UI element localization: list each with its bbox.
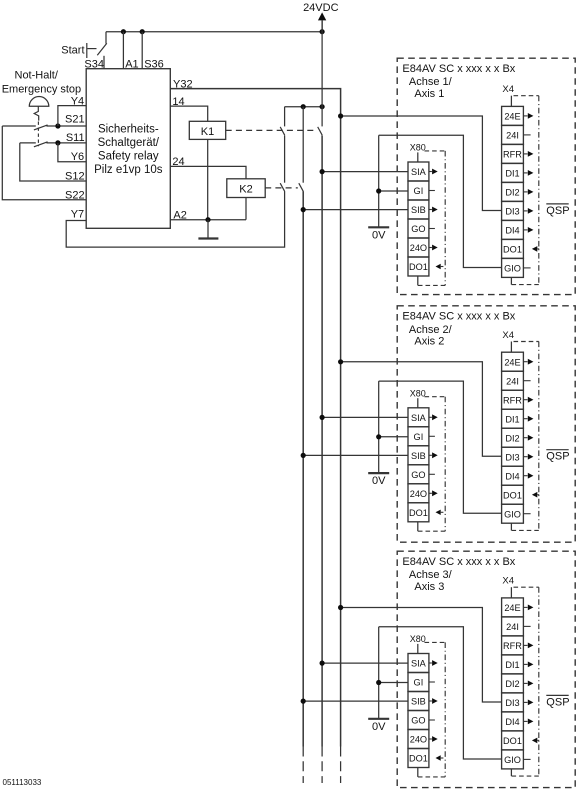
axis2 junction GI / 0V riser — [376, 434, 381, 439]
svg-text:Axis 1: Axis 1 — [414, 88, 444, 100]
axis3 connector X80 stem top — [417, 644, 419, 654]
axis2 X4 pin 24I stub — [523, 380, 530, 382]
axis1 X4 pin RFR arrow — [523, 153, 527, 155]
axis1 wire 0V riser — [378, 135, 380, 227]
junction A2 / K1 — [205, 217, 210, 222]
axis3 X80 pin DO1 cell — [408, 749, 429, 768]
axis2 X4 pin 24E cell — [502, 352, 524, 371]
axis2 X80 pin GO cell — [408, 465, 429, 484]
axis2 wire 0V to GIO — [379, 381, 502, 513]
axis3 connector X4 bracket bottom — [512, 775, 539, 777]
wire K1 to A2 rail — [207, 139, 209, 219]
axis1 connector X80 bracket side — [444, 151, 446, 286]
svg-text:X80: X80 — [410, 389, 426, 399]
axis2 wire SIA feed — [322, 416, 408, 418]
wire start upper terminal — [105, 32, 107, 44]
axis1 X4 pin DI4 cell — [502, 220, 524, 239]
svg-text:DO1: DO1 — [503, 736, 522, 746]
wire SIB rail lower — [302, 191, 304, 746]
wire top rail — [106, 31, 322, 33]
junction top rail / S36 — [140, 29, 145, 34]
axis2 wire Y32 rail to DI3 — [341, 362, 502, 457]
svg-text:Emergency stop: Emergency stop — [2, 84, 81, 96]
svg-text:SIA: SIA — [411, 659, 427, 669]
axis2 X4 pin DI4 cell — [502, 466, 524, 485]
axis3 X80 pin SIB cell — [408, 692, 429, 711]
axis1 X80 pin SIB cell — [408, 200, 429, 219]
axis3 X4 pin DI3 arrow — [523, 701, 527, 703]
axis3 connector X4 bracket side — [538, 587, 540, 776]
svg-text:SIB: SIB — [411, 205, 426, 215]
wire S11 left segment — [20, 142, 36, 144]
axis2 signal QSP overline — [546, 449, 568, 451]
axis3 X80 pin GI stub — [429, 681, 435, 683]
axis1 X4 pin DI1 arrow — [523, 172, 527, 174]
axis3 wire 0V riser — [378, 627, 380, 719]
axis2 connector X80 bracket side — [444, 397, 446, 532]
axis3 wire SIB feed — [303, 700, 408, 702]
wire A1 riser — [122, 32, 124, 69]
axis3 junction Y32 rail branch — [338, 605, 343, 610]
wire 24V feed to top rail — [321, 20, 323, 32]
axis2 wire 0V riser — [378, 381, 380, 473]
axis2 X4 pin DI2 cell — [502, 428, 524, 447]
svg-text:051113033: 051113033 — [3, 778, 42, 787]
svg-text:RFR: RFR — [503, 395, 522, 405]
wire S12 loop — [20, 143, 86, 181]
svg-text:DI1: DI1 — [505, 660, 519, 670]
svg-text:K2: K2 — [239, 184, 252, 196]
wire Y6 — [58, 143, 86, 162]
axis2 connector X80 stem bottom — [417, 522, 419, 531]
axis3 X4 pin DI1 arrow — [523, 663, 527, 665]
svg-text:DI4: DI4 — [505, 471, 519, 481]
axis2 X80 pin GI cell — [408, 427, 429, 446]
wire Y7 feedback loop — [66, 191, 284, 247]
axis1 X80 pin 24O cell — [408, 238, 429, 257]
axis1 X4 pin 24I cell — [502, 125, 524, 144]
svg-text:GI: GI — [414, 678, 424, 688]
wire SIA rail continuation dashed — [321, 747, 323, 784]
svg-text:0V: 0V — [372, 229, 386, 241]
svg-text:GIO: GIO — [504, 755, 521, 765]
axis1 drive enclosure — [397, 58, 575, 294]
K2 actuator dashed link — [265, 187, 298, 189]
axis2 X4 pin DO1 cell — [502, 485, 524, 504]
axis1 X4 pin 24E cell — [502, 106, 524, 125]
axis2 X80 pin SIA arrow — [429, 416, 432, 418]
axis3 X80 pin GO stub — [429, 719, 435, 721]
junction S11 / Y6 — [55, 140, 60, 145]
svg-text:E84AV SC x xxx x x Bx: E84AV SC x xxx x x Bx — [402, 310, 515, 322]
axis3 signal QSP overline — [546, 694, 568, 696]
svg-text:0V: 0V — [372, 475, 386, 487]
svg-text:DI1: DI1 — [505, 414, 519, 424]
axis1 connector X80 stem top — [417, 152, 419, 162]
axis3 X4 pin DI3 cell — [502, 693, 524, 712]
contact K1.2 blade — [280, 127, 285, 135]
axis1 X4 pin DO1 arrow — [532, 246, 537, 252]
axis1 signal QSP overline — [546, 203, 568, 205]
axis1 junction SIA rail branch — [320, 169, 325, 174]
axis2 X4 pin DI3 cell — [502, 447, 524, 466]
axis3 X4 pin DI4 cell — [502, 712, 524, 731]
svg-text:GIO: GIO — [504, 509, 521, 519]
wire S36 riser — [141, 32, 143, 69]
axis2 connector X4 bracket top — [514, 341, 539, 343]
axis1 connector X4 stem bottom — [510, 277, 512, 284]
svg-text:Axis 2: Axis 2 — [414, 336, 444, 348]
svg-text:DI4: DI4 — [505, 226, 519, 236]
axis2 connector X80 bracket top — [425, 396, 446, 398]
wire rail feed stub 24V — [285, 106, 323, 108]
svg-text:DI2: DI2 — [505, 188, 519, 198]
axis2 X80 pin DO1 cell — [408, 503, 429, 522]
axis1 junction GI / 0V riser — [376, 188, 381, 193]
pushbutton S34 actuator bar — [86, 43, 88, 58]
axis2 X4 pin RFR arrow — [523, 399, 527, 401]
axis2 connector X80 bracket bottom — [418, 530, 445, 532]
axis1 X4 pin GIO cell — [502, 258, 524, 277]
svg-text:DI4: DI4 — [505, 717, 519, 727]
svg-text:GI: GI — [414, 432, 424, 442]
wire S34 riser — [103, 56, 105, 69]
svg-text:24O: 24O — [410, 489, 427, 499]
axis3 ground 0V bar — [368, 718, 389, 720]
junction stub / 24V rail — [320, 104, 325, 109]
axis1 connector X4 bracket bottom — [512, 284, 539, 286]
axis2 X4 pin DI1 cell — [502, 409, 524, 428]
svg-text:X4: X4 — [502, 330, 514, 341]
svg-text:DI2: DI2 — [505, 433, 519, 443]
axis3 X4 pin DI1 cell — [502, 655, 524, 674]
svg-text:24O: 24O — [410, 735, 427, 745]
axis2 X80 pin SIB cell — [408, 446, 429, 465]
axis3 X4 pin 24I cell — [502, 617, 524, 636]
svg-text:S21: S21 — [65, 114, 85, 126]
svg-text:Axis 3: Axis 3 — [414, 581, 444, 593]
svg-text:X80: X80 — [410, 143, 426, 153]
axis2 junction SIB rail branch — [301, 453, 306, 458]
axis2 X4 pin DI1 arrow — [523, 418, 527, 420]
axis1 connector X4 bracket top — [514, 95, 539, 97]
svg-text:QSP: QSP — [546, 696, 569, 708]
axis3 X4 pin 24I stub — [523, 625, 530, 627]
wire feedback rail upper — [284, 107, 286, 127]
svg-text:DI2: DI2 — [505, 679, 519, 689]
contact K1.1 blade — [318, 127, 323, 135]
axis2 X4 pin RFR cell — [502, 390, 524, 409]
axis1 connector X80 bracket bottom — [418, 284, 445, 286]
axis2 connector X4 bracket bottom — [512, 529, 539, 531]
axis3 X4 pin GIO stub — [523, 758, 530, 760]
svg-text:Not-Halt/: Not-Halt/ — [15, 70, 59, 82]
axis1 X80 pin 24O arrow — [429, 247, 432, 249]
svg-text:24O: 24O — [410, 243, 427, 253]
axis3 wire 0V to GIO — [379, 627, 502, 759]
axis2 X80 pin SIB arrow — [429, 454, 432, 456]
axis3 junction GI / 0V riser — [376, 680, 381, 685]
svg-text:24I: 24I — [506, 622, 519, 632]
axis2 ground 0V bar — [368, 472, 389, 474]
wire Y32 rail — [170, 89, 340, 747]
wire SIA rail lower — [321, 135, 323, 746]
wire S22 loop — [2, 126, 86, 200]
wire Y4 — [58, 106, 86, 126]
axis1 wire Y32 rail to DI3 — [341, 116, 502, 211]
axis3 X4 pin RFR cell — [502, 636, 524, 655]
svg-text:Achse 2/: Achse 2/ — [409, 324, 453, 336]
axis3 X80 pin SIA arrow — [429, 662, 432, 664]
svg-text:Achse 3/: Achse 3/ — [409, 569, 453, 581]
pushbutton S34 contact blade — [97, 43, 107, 55]
axis3 X80 pin 24O cell — [408, 730, 429, 749]
svg-text:SIB: SIB — [411, 697, 426, 707]
axis1 X4 pin DO1 cell — [502, 239, 524, 258]
axis2 wire GI to 0V — [379, 436, 408, 438]
axis2 drive enclosure — [397, 306, 575, 542]
svg-text:24I: 24I — [506, 131, 519, 141]
axis3 connector X80 bracket top — [425, 641, 446, 643]
axis1 X80 pin SIA cell — [408, 162, 429, 181]
svg-text:DO1: DO1 — [503, 245, 522, 255]
axis3 wire Y32 rail to DI3 — [341, 608, 502, 703]
axis2 X4 pin 24I cell — [502, 371, 524, 390]
axis2 junction Y32 rail branch — [338, 359, 343, 364]
svg-text:GIO: GIO — [504, 264, 521, 274]
junction stub / rail SIB — [301, 104, 306, 109]
axis3 X80 pin GI cell — [408, 673, 429, 692]
pushbutton S34 actuator link — [87, 48, 96, 50]
svg-text:DO1: DO1 — [503, 490, 522, 500]
axis2 connector X4 stem bottom — [510, 523, 512, 530]
axis3 junction SIB rail branch — [301, 699, 306, 704]
svg-text:GI: GI — [414, 186, 424, 196]
e-stop contact S1.2 blade — [34, 142, 48, 147]
axis2 X80 pin 24O cell — [408, 484, 429, 503]
axis2 connector X4 stem top — [510, 342, 512, 353]
svg-text:24I: 24I — [506, 376, 519, 386]
axis1 X4 pin DI3 cell — [502, 201, 524, 220]
axis3 X4 pin GIO cell — [502, 750, 524, 769]
svg-text:DI1: DI1 — [505, 169, 519, 179]
axis2 X4 pin GIO cell — [502, 504, 524, 523]
axis1 connector X80 stem bottom — [417, 276, 419, 285]
axis3 X80 pin GO cell — [408, 711, 429, 730]
axis3 connector X80 stem bottom — [417, 768, 419, 777]
axis1 ground 0V bar — [368, 226, 389, 228]
axis3 X4 pin RFR arrow — [523, 644, 527, 646]
wire Y32 rail continuation dashed — [340, 747, 342, 784]
wire S21 to relay — [46, 125, 86, 127]
svg-text:24E: 24E — [504, 603, 520, 613]
axis2 X80 pin GI stub — [429, 435, 435, 437]
axis3 drive enclosure — [397, 551, 575, 787]
junction S21 / Y4 — [55, 123, 60, 128]
axis1 X4 pin DI3 arrow — [523, 210, 527, 212]
wire SIB rail upper — [302, 107, 304, 183]
axis3 connector X4 bracket top — [514, 586, 539, 588]
contact K2.2 blade — [280, 183, 285, 191]
axis1 X4 pin 24E arrow — [523, 115, 527, 117]
e-stop S1 actuator stem — [34, 106, 39, 120]
wire SIB rail continuation dashed — [302, 747, 304, 784]
axis3 X4 pin DI4 arrow — [523, 720, 527, 722]
axis1 junction SIB rail branch — [301, 207, 306, 212]
axis1 X80 pin GI cell — [408, 181, 429, 200]
relay coil K1 body — [189, 121, 225, 139]
wire pin 14 to K1 — [170, 106, 207, 121]
wire A2 — [170, 219, 246, 221]
e-stop S1 mushroom head — [29, 97, 49, 107]
svg-text:24VDC: 24VDC — [303, 2, 339, 14]
svg-text:DI3: DI3 — [505, 698, 519, 708]
axis3 X4 pin DI2 arrow — [523, 682, 527, 684]
axis3 junction SIA rail branch — [320, 661, 325, 666]
svg-text:Safety relay: Safety relay — [98, 150, 159, 162]
svg-text:DO1: DO1 — [409, 262, 428, 272]
axis2 X4 pin DI2 arrow — [523, 437, 527, 439]
svg-text:E84AV SC x xxx x x Bx: E84AV SC x xxx x x Bx — [402, 556, 515, 568]
svg-text:DI3: DI3 — [505, 207, 519, 217]
axis1 X80 pin GI stub — [429, 190, 435, 192]
axis3 X4 pin 24E cell — [502, 598, 524, 617]
svg-text:GO: GO — [411, 470, 425, 480]
axis3 connector X80 bracket bottom — [418, 776, 445, 778]
axis1 X80 pin SIA arrow — [429, 171, 432, 173]
axis2 wire SIB feed — [303, 454, 408, 456]
svg-text:X80: X80 — [410, 634, 426, 644]
axis2 connector X80 stem top — [417, 398, 419, 408]
axis3 X80 pin 24O arrow — [429, 738, 432, 740]
axis1 junction Y32 rail branch — [338, 113, 343, 118]
axis3 X4 pin 24E arrow — [523, 606, 527, 608]
axis1 wire SIB feed — [303, 209, 408, 211]
axis2 X80 pin GO stub — [429, 473, 435, 475]
svg-text:Achse 1/: Achse 1/ — [409, 76, 453, 88]
axis2 X4 pin DO1 arrow — [532, 492, 537, 498]
axis1 X4 pin DI2 cell — [502, 182, 524, 201]
axis2 X80 pin DO1 arrow — [436, 510, 441, 515]
axis3 X4 pin DO1 cell — [502, 731, 524, 750]
svg-text:Start: Start — [61, 45, 84, 57]
relay coil K2 body — [227, 179, 265, 198]
svg-text:Schaltgerät/: Schaltgerät/ — [98, 137, 160, 149]
e-stop contact S1.1 blade — [34, 125, 48, 130]
svg-text:Pilz e1vp 10s: Pilz e1vp 10s — [94, 164, 163, 176]
axis3 connector X4 stem bottom — [510, 769, 512, 776]
svg-text:24E: 24E — [504, 112, 520, 122]
wire K2 to A2 wire — [245, 198, 247, 220]
svg-text:DO1: DO1 — [409, 754, 428, 764]
axis3 X4 pin DO1 arrow — [532, 738, 537, 744]
axis3 X80 pin DO1 arrow — [436, 755, 441, 760]
axis1 X4 pin DI4 arrow — [523, 229, 527, 231]
wire pin 24 to K2 — [170, 166, 246, 178]
svg-text:SIA: SIA — [411, 413, 427, 423]
safety relay U1 body — [86, 69, 170, 229]
axis1 X80 pin DO1 cell — [408, 257, 429, 276]
axis3 wire GI to 0V — [379, 682, 408, 684]
svg-text:Y7: Y7 — [71, 208, 84, 220]
axis1 X4 pin RFR cell — [502, 144, 524, 163]
axis2 connector X4 bracket side — [538, 342, 540, 531]
svg-text:SIB: SIB — [411, 451, 426, 461]
svg-text:GO: GO — [411, 224, 425, 234]
wire S21 left segment — [2, 125, 36, 127]
svg-text:GO: GO — [411, 716, 425, 726]
axis2 X80 pin SIA cell — [408, 408, 429, 427]
axis3 X4 pin DI2 cell — [502, 674, 524, 693]
svg-text:X4: X4 — [502, 576, 514, 587]
axis1 connector X80 bracket top — [425, 150, 446, 152]
ground at A2 bar — [198, 237, 218, 239]
axis1 wire 0V to GIO — [379, 135, 502, 267]
svg-text:DO1: DO1 — [409, 508, 428, 518]
svg-text:Sicherheits-: Sicherheits- — [98, 124, 159, 136]
svg-text:RFR: RFR — [503, 150, 522, 160]
wire feedback rail middle — [284, 135, 286, 182]
axis3 connector X80 bracket side — [444, 642, 446, 777]
junction top rail / A1 — [121, 29, 126, 34]
axis1 X80 pin GO stub — [429, 228, 435, 230]
axis2 X4 pin DI4 arrow — [523, 475, 527, 477]
wire SIA rail upper — [321, 20, 323, 126]
axis3 X80 pin SIB arrow — [429, 700, 432, 702]
e-stop S1 actuator dashed link — [37, 122, 39, 147]
ground at A2 stem — [207, 220, 209, 239]
axis2 X4 pin 24E arrow — [523, 361, 527, 363]
axis1 connector X4 stem top — [510, 96, 512, 107]
wire S11 to relay — [46, 142, 86, 144]
axis3 connector X4 stem top — [510, 587, 512, 598]
K1 actuator dashed link — [226, 129, 317, 131]
svg-text:QSP: QSP — [546, 451, 569, 463]
svg-text:RFR: RFR — [503, 641, 522, 651]
axis1 wire SIA feed — [322, 171, 408, 173]
supply arrow 24VDC — [318, 12, 326, 20]
svg-text:K1: K1 — [201, 126, 214, 138]
svg-text:E84AV SC x xxx x x Bx: E84AV SC x xxx x x Bx — [402, 63, 515, 75]
axis1 X4 pin DI2 arrow — [523, 191, 527, 193]
axis1 connector X4 bracket side — [538, 96, 540, 285]
axis3 wire SIA feed — [322, 662, 408, 664]
contact K2.1 blade — [299, 183, 304, 191]
axis2 X4 pin DI3 arrow — [523, 456, 527, 458]
junction top rail / 24V rail — [320, 29, 325, 34]
svg-text:0V: 0V — [372, 721, 386, 733]
axis1 wire GI to 0V — [379, 190, 408, 192]
axis1 X80 pin SIB arrow — [429, 209, 432, 211]
axis1 X4 pin GIO stub — [523, 267, 530, 269]
axis2 junction SIA rail branch — [320, 415, 325, 420]
svg-text:QSP: QSP — [546, 205, 569, 217]
svg-text:X4: X4 — [502, 84, 514, 95]
axis1 X80 pin GO cell — [408, 219, 429, 238]
svg-text:SIA: SIA — [411, 167, 427, 177]
axis1 X4 pin 24I stub — [523, 134, 530, 136]
axis2 X4 pin GIO stub — [523, 513, 530, 515]
svg-text:DI3: DI3 — [505, 452, 519, 462]
axis1 X80 pin DO1 arrow — [436, 264, 441, 269]
axis2 X80 pin 24O arrow — [429, 492, 432, 494]
axis1 X4 pin DI1 cell — [502, 163, 524, 182]
svg-text:24E: 24E — [504, 357, 520, 367]
axis3 X80 pin SIA cell — [408, 654, 429, 673]
